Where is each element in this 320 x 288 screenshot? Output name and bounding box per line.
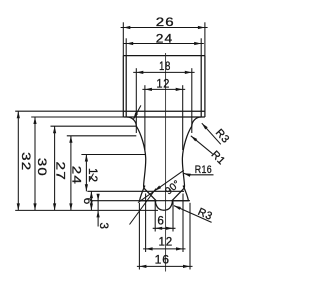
svg-text:30: 30 bbox=[35, 158, 48, 177]
left fillet leader bbox=[133, 105, 141, 119]
svg-text:24: 24 bbox=[70, 166, 83, 185]
dim 6B line bbox=[153, 227, 176, 230]
dim 32 extension line top bbox=[15, 110, 123, 112]
svg-text:6: 6 bbox=[81, 198, 94, 205]
centerline bbox=[165, 53, 167, 272]
svg-text:90°: 90° bbox=[163, 179, 182, 198]
left waist R16 curve bbox=[136, 126, 145, 188]
dim 26 extension lines bbox=[123, 22, 205, 55]
leader R1 bbox=[191, 136, 213, 154]
svg-text:12: 12 bbox=[158, 236, 173, 249]
svg-text:6: 6 bbox=[157, 215, 164, 228]
leader R3 bottom bbox=[174, 206, 212, 223]
svg-text:27: 27 bbox=[54, 162, 67, 182]
tooth right wall bbox=[172, 188, 185, 201]
leader R3 top bbox=[202, 123, 221, 144]
cap internal line (32-level) bbox=[123, 110, 205, 112]
svg-text:24: 24 bbox=[156, 32, 173, 46]
svg-text:3: 3 bbox=[97, 223, 110, 230]
bottom face left bbox=[139, 200, 155, 202]
svg-text:16: 16 bbox=[155, 253, 170, 267]
part top face bbox=[123, 55, 205, 57]
right bottom flare bbox=[183, 186, 188, 201]
dim 6B extension lines bbox=[155, 202, 173, 232]
dim 16B extension lines bbox=[139, 203, 190, 270]
part right outer edge bbox=[204, 56, 206, 117]
dim 30 extension line top bbox=[31, 116, 123, 118]
dim 24L line bbox=[69, 136, 72, 211]
part right inner edge (24) bbox=[200, 56, 202, 117]
dim 24L extension line top bbox=[67, 135, 137, 137]
dim 6L extension line top bbox=[87, 190, 184, 192]
cap bottom face (30-level) bbox=[123, 116, 205, 118]
dim 12L line bbox=[85, 155, 88, 192]
dim 12B line bbox=[143, 247, 185, 250]
dim 26 line bbox=[121, 26, 208, 29]
dim 30 line bbox=[33, 117, 36, 210]
dim 18 line bbox=[133, 71, 194, 74]
dim 12 line bbox=[142, 88, 185, 91]
leader R16 bbox=[184, 173, 214, 177]
dim 6L line bbox=[90, 191, 93, 210]
svg-text:R16: R16 bbox=[195, 164, 212, 176]
svg-text:26: 26 bbox=[156, 16, 175, 29]
baseline extension line bbox=[15, 209, 158, 211]
tooth tip R3 arc bbox=[155, 201, 172, 210]
dim 24 line bbox=[124, 42, 204, 45]
angle extension line bbox=[130, 189, 157, 225]
dim 24 extension lines bbox=[126, 38, 201, 55]
dim 18 extension lines bbox=[136, 68, 192, 133]
left bottom flare bbox=[140, 186, 145, 201]
dim 3L extension line top bbox=[90, 200, 190, 202]
svg-text:32: 32 bbox=[20, 152, 33, 171]
svg-text:R3: R3 bbox=[196, 206, 214, 223]
slash tick near 12L bbox=[90, 174, 94, 180]
dim 27 extension line top bbox=[51, 125, 137, 127]
dim 16B line bbox=[137, 265, 193, 268]
bottom face right bbox=[173, 200, 189, 202]
dim 32 line bbox=[17, 111, 20, 210]
part left inner edge (24) bbox=[125, 56, 127, 117]
right waist R16 curve bbox=[182, 126, 191, 188]
fillet R3 left bbox=[127, 117, 136, 126]
dim 12B extension lines bbox=[146, 194, 183, 253]
svg-text:12: 12 bbox=[156, 78, 170, 90]
fillet R3 right bbox=[192, 117, 201, 126]
svg-text:R3: R3 bbox=[213, 127, 232, 146]
dim 3L line bbox=[97, 194, 100, 227]
angle dim line bbox=[138, 170, 184, 202]
dim 27 line bbox=[53, 126, 56, 210]
dim 12L extension line top bbox=[81, 154, 146, 156]
svg-text:18: 18 bbox=[159, 60, 171, 73]
dim 12 extension lines bbox=[145, 85, 183, 150]
tooth left wall bbox=[144, 188, 157, 201]
part left outer edge bbox=[122, 56, 124, 117]
